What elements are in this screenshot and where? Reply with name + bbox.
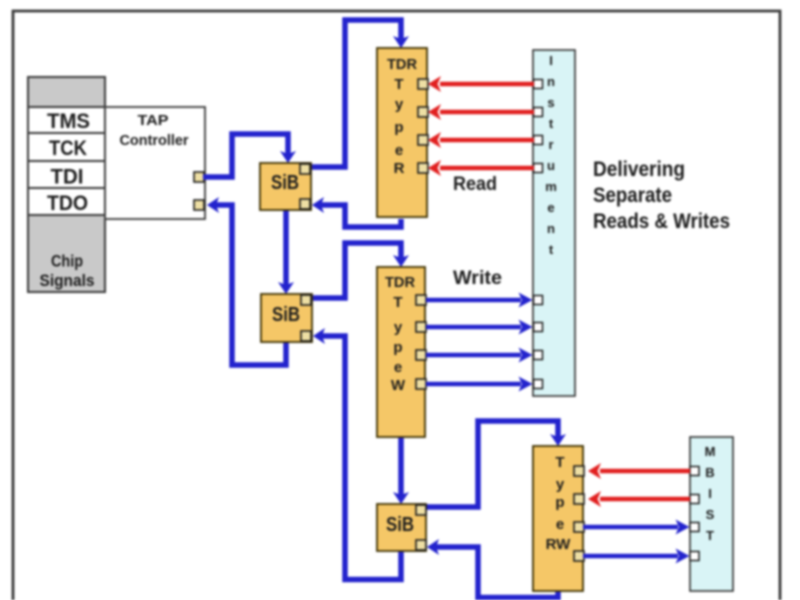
wire SiB S3 hier-out to TDR TypeRW scan-in bbox=[426, 421, 566, 507]
svg-text:Read: Read bbox=[453, 174, 497, 195]
svg-text:I: I bbox=[549, 53, 553, 68]
svg-text:SiB: SiB bbox=[271, 172, 299, 194]
svg-text:e: e bbox=[556, 516, 564, 533]
svg-text:TDR: TDR bbox=[387, 56, 417, 73]
svg-text:p: p bbox=[555, 494, 564, 511]
svg-text:Controller: Controller bbox=[120, 133, 189, 149]
pin Instrument r3 bbox=[534, 136, 543, 145]
pin TypeR 3 bbox=[418, 135, 428, 145]
wire TDR TypeR scan-out back to SiB S1 bbox=[312, 197, 401, 227]
svg-text:m: m bbox=[545, 179, 557, 194]
svg-text:r: r bbox=[548, 137, 553, 152]
pin TypeRW 3 bbox=[574, 522, 584, 532]
svg-text:Write: Write bbox=[453, 268, 502, 289]
pin Instrument w1 bbox=[534, 296, 543, 305]
svg-text:Delivering: Delivering bbox=[593, 158, 685, 181]
pin TypeW 2 bbox=[416, 322, 426, 332]
block Instrument bbox=[533, 50, 575, 396]
svg-text:n: n bbox=[547, 74, 555, 89]
pin Instrument w4 bbox=[534, 380, 543, 389]
mbist read arrow 1 (MBIST to TypeRW) bbox=[588, 463, 690, 479]
write arrow 3 bbox=[426, 348, 533, 363]
pin Instrument r4 bbox=[534, 164, 543, 173]
svg-text:t: t bbox=[549, 116, 554, 131]
svg-text:y: y bbox=[556, 476, 565, 493]
write arrow 4 bbox=[426, 377, 533, 392]
svg-text:T: T bbox=[555, 454, 564, 471]
block TAP Controller U1 bbox=[105, 107, 205, 219]
pin Instrument w2 bbox=[534, 323, 543, 332]
wire TDR TypeRW scan-out back to SiB S3 bbox=[427, 539, 558, 598]
svg-text:R: R bbox=[394, 160, 405, 177]
mbist read arrow 2 bbox=[588, 491, 690, 507]
svg-text:T: T bbox=[394, 76, 403, 93]
svg-text:n: n bbox=[547, 221, 555, 236]
svg-text:T: T bbox=[393, 294, 402, 311]
svg-text:TDR: TDR bbox=[385, 274, 415, 291]
pin S1 bottom-right bbox=[300, 199, 310, 209]
svg-text:e: e bbox=[394, 359, 402, 376]
SIB S2 bbox=[261, 294, 312, 342]
pin MBIST 4 bbox=[690, 552, 699, 561]
SIB S1 bbox=[260, 163, 311, 210]
write arrow 1 (TypeW to Instrument) bbox=[426, 293, 533, 308]
svg-text:SiB: SiB bbox=[272, 304, 300, 326]
svg-text:TAP: TAP bbox=[138, 113, 169, 129]
svg-text:Chip: Chip bbox=[51, 252, 83, 271]
SIB S3 bbox=[377, 504, 426, 551]
svg-text:u: u bbox=[547, 158, 555, 173]
svg-text:S: S bbox=[706, 507, 715, 522]
mbist write arrow 1 (TypeRW to MBIST) bbox=[583, 520, 690, 535]
pin TAP TDI out bbox=[194, 172, 204, 182]
block TDR Type W bbox=[377, 267, 425, 437]
block TDR Type R bbox=[377, 48, 427, 217]
mbist write arrow 2 bbox=[583, 549, 690, 564]
pin S2 bottom-right bbox=[301, 331, 311, 341]
pin MBIST 1 bbox=[690, 467, 699, 476]
svg-text:Separate: Separate bbox=[593, 184, 672, 207]
pin S2 top-right bbox=[301, 295, 311, 305]
chip signals column bbox=[28, 77, 105, 292]
wire TDR TypeW scan-out to SiB S3 input bbox=[393, 437, 409, 504]
svg-text:W: W bbox=[391, 377, 406, 394]
svg-text:p: p bbox=[394, 119, 403, 136]
wire SiB S2 out to TAP TDO return bbox=[207, 197, 286, 365]
pin Instrument r2 bbox=[534, 108, 543, 117]
pin MBIST 3 bbox=[690, 523, 699, 532]
wire SiB S1 out to SiB S2 input bbox=[278, 210, 294, 294]
pin S1 top-right bbox=[300, 164, 310, 174]
svg-text:TCK: TCK bbox=[49, 137, 87, 160]
svg-text:Signals: Signals bbox=[40, 271, 95, 290]
pin TypeW 4 bbox=[416, 379, 426, 389]
svg-text:y: y bbox=[395, 96, 404, 113]
pin TAP TDO in bbox=[194, 200, 204, 210]
block MBIST bbox=[690, 437, 733, 591]
svg-text:T: T bbox=[706, 528, 714, 543]
block TDR Type RW bbox=[533, 446, 583, 591]
read arrow 4 bbox=[428, 160, 534, 176]
read arrow 2 bbox=[428, 104, 534, 120]
pin TypeR 4 bbox=[418, 163, 428, 173]
pin S3 top-right bbox=[416, 505, 426, 515]
pin TypeRW 2 bbox=[574, 494, 584, 504]
svg-text:y: y bbox=[394, 319, 403, 336]
pin Instrument r1 bbox=[534, 80, 543, 89]
pin TypeW 1 bbox=[416, 295, 426, 305]
pin TypeRW 4 bbox=[574, 551, 584, 561]
write arrow 2 bbox=[426, 320, 533, 335]
pin TypeR 1 bbox=[418, 79, 428, 89]
svg-text:TMS: TMS bbox=[47, 110, 90, 133]
svg-text:B: B bbox=[705, 465, 714, 480]
wire SiB S1 hier-out to TDR TypeR scan-in bbox=[311, 20, 409, 167]
svg-text:RW: RW bbox=[546, 536, 572, 553]
pin TypeRW 1 bbox=[574, 466, 584, 476]
svg-text:SiB: SiB bbox=[386, 514, 414, 536]
wire SiB S3 out back to SiB S2 bbox=[313, 328, 401, 580]
pin Instrument w3 bbox=[534, 351, 543, 360]
svg-text:p: p bbox=[393, 339, 402, 356]
svg-text:TDO: TDO bbox=[47, 192, 88, 215]
svg-text:M: M bbox=[705, 444, 716, 459]
svg-text:e: e bbox=[547, 200, 554, 215]
svg-text:s: s bbox=[547, 95, 554, 110]
svg-text:TDI: TDI bbox=[51, 166, 84, 189]
pin MBIST 2 bbox=[690, 495, 699, 504]
pin TypeW 3 bbox=[416, 350, 426, 360]
svg-text:t: t bbox=[549, 242, 554, 257]
wire TDI to SiB S1 input bbox=[203, 134, 296, 177]
wire SiB S2 hier-out to TDR TypeW scan-in bbox=[312, 243, 409, 298]
read arrow 3 bbox=[428, 132, 534, 148]
svg-text:e: e bbox=[395, 142, 403, 159]
svg-text:Reads & Writes: Reads & Writes bbox=[593, 210, 730, 233]
read arrow 1 (Instrument to TypeR) bbox=[428, 76, 534, 92]
pin TypeR 2 bbox=[418, 107, 428, 117]
svg-text:I: I bbox=[708, 486, 712, 501]
label Delivering Separate Reads & Writes bbox=[593, 158, 730, 233]
pin S3 bottom-right bbox=[416, 540, 426, 550]
